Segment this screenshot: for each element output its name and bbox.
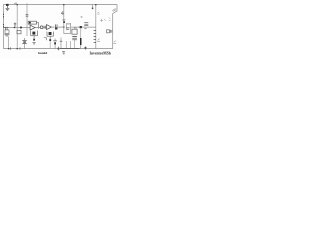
coil box L2 [5,30,9,34]
node dot rail x8.6 [8,48,9,49]
numeral cross x101 y20 [100,19,106,22]
cathode dark dot box 2 [49,39,51,41]
wire vertical x66.3 [65,23,67,30]
svg-text:InventorMSb: InventorMSb [90,52,111,56]
battery B2 stem bottom [24,44,26,49]
stem to R4 [74,27,76,29]
op-amp U1 triangle [30,25,35,30]
node dot rail x17.2 [17,48,18,49]
wire U2 output [51,26,54,28]
coil box L3 [17,30,21,33]
faint numeral x109 y18 [109,18,111,21]
capacitor C2 stub above line [14,23,17,28]
wire mid line right [71,26,96,28]
switch bar [60,40,63,42]
cathode dark dot [33,39,35,41]
capacitor bars x44-45.5 [44,26,45,29]
node dot x14.5 [14,27,15,28]
wire dark rail overdraw [60,48,80,50]
wire vertical x27 [26,3,28,36]
output box open-top left vertical [30,31,32,36]
leader numeral x98 lower [97,39,100,42]
capacitor C3 bars [66,28,69,29]
node dot x63.8 [63,26,64,27]
wire T1 to junction [58,26,64,28]
ground G3 bars [33,43,36,44]
wire U1 output [35,27,40,29]
output box bottom bar [31,35,38,37]
node blob x21 [20,27,22,29]
phones P1 bars [111,30,112,33]
phones P1 box [107,30,110,33]
resistor R2 lower mark [84,28,86,30]
wire vertical x66.3 lower [65,41,67,49]
wire horizontal y33.6 [64,33,71,35]
node blob x80.7 [80,26,82,28]
wire vertical x70.6 lower [70,41,72,49]
wire right vertical bus [112,14,114,49]
transformer T1 bars [55,24,57,29]
grid box R4 [72,29,77,34]
output box right vertical [37,31,39,36]
svg-text:hamld: hamld [38,51,47,55]
transformer T1 dark blob [55,27,57,29]
wire top supply rail [4,4,118,6]
ground G1 [5,5,9,11]
ground G2 [4,35,9,36]
tick on x63.8 at y20 [62,19,65,21]
wire vertical x17 full height [16,5,18,49]
tube dot V1 circle [40,26,43,29]
op-amp U2 triangle [47,25,52,30]
dark core blob in box 2 [49,32,52,35]
leader numeral right lower [113,41,116,44]
tick down x76 [75,27,77,29]
wire vertical x95.8 full [95,5,97,49]
tick rail x58.5 [57,47,59,50]
node dot x95.8 top [95,4,96,5]
battery B2 dark cell [23,41,26,42]
dark dot on x63.8 at y22 [63,21,65,23]
cathode stem below box [33,36,35,39]
node dot x92.5 end [92,8,94,10]
corner bracket x44.6 [44,38,47,41]
dark core blob in output box [32,32,35,35]
electrolytic C5 dark bar [80,38,82,45]
battery B2 stem top [24,38,26,40]
resistor R5 bars below box [72,37,77,40]
leader numeral 2 top left [14,3,17,5]
wire bottom ground rail [4,48,113,50]
label numeral 4 [61,11,64,15]
wire top right corner drop [113,5,117,14]
battery B3 bars [53,41,57,42]
leader arrow top right [112,8,116,11]
resistor R3 hatch bars [94,30,96,42]
label marks below rail x63 [62,52,65,54]
wire vertical x92.5 short [92,5,94,9]
wire vertical x80.7 upper [80,28,82,38]
cathode stem below box 2 [49,36,51,39]
dark dot inside flat box [29,22,31,24]
node dot x63.8 top [63,4,64,5]
wire mid signal line left [9,27,30,29]
capacitor C1 bars on x27 [26,15,29,16]
wire vertical x74.5 to rail [74,40,76,48]
faint numeral near x81 y17 [81,16,83,17]
tube socket box 2 bottom bar [47,35,53,37]
wire vertical x70.6 [70,23,72,34]
wire vertical x50.2 to rail [49,41,51,49]
battery B3 stem [54,39,56,49]
node dot x17 top [17,4,18,5]
tube socket box 2 right vertical [52,32,54,37]
wire vertical x63.8 from top [63,5,65,34]
resistor R2 stacked bars [84,23,88,26]
wire vertical x8.6 lower [8,37,10,49]
dark dashes on left bus [3,14,5,29]
wire V1 to U2 [43,26,46,28]
tick top x67-70 [67,23,70,25]
node dot rail x58.5 [58,48,60,50]
stub right of flat box [37,22,39,28]
node dot rail x85.5 [85,47,87,49]
IF transformer flat box [28,21,36,24]
wire left vertical bus [3,5,5,49]
tuned circuit bars far left [4,27,9,30]
wire x80.7 to rail [80,45,82,49]
battery B3 dark dot [54,43,56,45]
tick rail x85.5 [85,46,87,49]
node ticks on bottom rail [11,47,21,49]
tube socket box 2 left vertical [46,32,48,37]
battery B2 bars [22,41,26,44]
numeral near x97 y14 [97,12,100,14]
antenna junction blob top left [6,4,9,6]
switch tick x61 [60,38,62,49]
